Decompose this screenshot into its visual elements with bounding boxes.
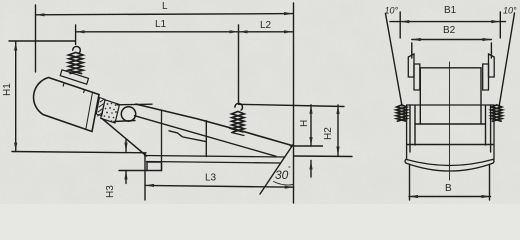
dimension L2 line: [239, 30, 294, 33]
L3 left extension line: [144, 154, 146, 200]
dimension B2: [412, 38, 492, 41]
paper noise texture: [0, 0, 1, 1]
spring 2: [232, 112, 244, 132]
dimension B1: [390, 20, 506, 23]
material dash 2: [183, 137, 206, 142]
B2 right extension: [490, 43, 492, 58]
trough bottom plate top line: [145, 156, 286, 158]
spring right (front view): [491, 105, 502, 121]
foot box: [147, 162, 162, 171]
dimension H3: [124, 140, 127, 184]
B2 left extension: [411, 43, 413, 58]
trough outer wall left: [406, 105, 408, 160]
hook 2: [235, 103, 243, 110]
connector shaft (hatched): [96, 98, 105, 117]
trough front top edge: [407, 104, 494, 106]
vibrator body (capsule): [34, 78, 99, 132]
trough diagonal: [135, 116, 277, 157]
trough top rim: [136, 104, 294, 146]
H top extension line: [239, 104, 345, 106]
inner bottom far edge: [415, 123, 486, 125]
base reference line left: [12, 152, 146, 153]
trough left wall: [161, 110, 163, 171]
H3 bottom extension line: [119, 170, 147, 172]
spring 1: [69, 53, 83, 74]
material dash 1: [169, 131, 177, 133]
band left end cap: [405, 159, 406, 163]
centerline: [449, 62, 451, 180]
trough inner wall left: [409, 105, 411, 152]
hanger rod right (10 deg): [499, 13, 515, 107]
trough back right edge: [480, 68, 482, 124]
right hanger bracket: [483, 54, 495, 90]
extension line left end of L: [35, 5, 37, 72]
fork top line: [117, 103, 152, 106]
left hanger bracket: [408, 54, 420, 90]
trough outer wall right: [493, 105, 495, 160]
B1 left vertical reference: [399, 12, 401, 38]
trough inner plate edge left: [414, 106, 416, 145]
fork bottom line: [114, 121, 135, 122]
vibrator end-cap seam: [86, 92, 93, 129]
extension line H1 top: [9, 40, 75, 42]
trough mid divider: [205, 121, 207, 157]
hanger rod 1: [75, 25, 77, 45]
dimension H: [309, 105, 312, 146]
hanger rod left (10 deg): [386, 14, 403, 107]
extension line hanger2: [238, 25, 240, 103]
B left extension: [409, 165, 411, 201]
spring left (front view): [396, 105, 407, 121]
spring 2 foot on rim: [232, 133, 245, 136]
inner bottom near edge: [407, 144, 494, 146]
H bottom extension (lip line): [291, 145, 323, 147]
bottom curved band top arc: [406, 159, 493, 165]
bottom curved band bottom arc: [406, 163, 493, 171]
vibrator top bracket: [60, 70, 88, 93]
extension line right end (discharge) full height: [293, 3, 295, 203]
trough bottom plate bottom line: [147, 162, 281, 164]
trough back left edge: [419, 68, 421, 124]
dimension H2: [336, 105, 339, 156]
dimension B: [409, 195, 491, 198]
dimension L line: [36, 12, 294, 16]
dimension L3: [145, 184, 294, 189]
material dash connector: [178, 133, 183, 137]
support strut: [102, 119, 147, 157]
trough back top edge: [420, 67, 481, 69]
hook 1: [73, 46, 81, 53]
discharge end chamfer 30 deg: [260, 144, 293, 194]
B1 right vertical reference: [499, 12, 501, 38]
pivot pin circle: [121, 107, 135, 121]
trough inner wall right: [490, 105, 492, 152]
angle arc 30 deg: [274, 182, 294, 186]
dimension H1 line: [14, 42, 17, 152]
B right extension: [489, 165, 491, 201]
connector block (stippled): [101, 100, 120, 123]
band right end cap: [493, 159, 494, 163]
trough inner plate edge right: [485, 106, 487, 145]
dimension L1 line: [76, 30, 239, 33]
base reference line right: [294, 155, 352, 158]
small arrow below lip: [309, 161, 312, 178]
